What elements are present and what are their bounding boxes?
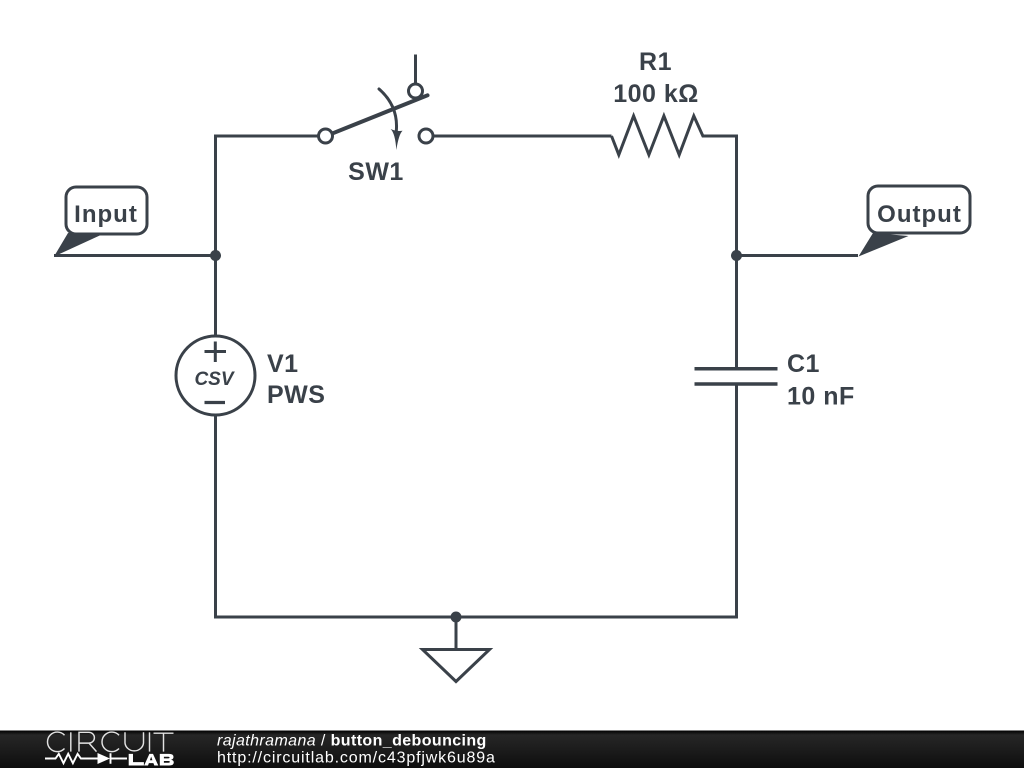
node flag Input bubble [66, 187, 147, 234]
wire input stub (Input flag to node) [54, 254, 217, 257]
CircuitLab logo word CIRCUIT (drawn letters) [48, 732, 174, 752]
wire top-left horizontal (node Input to SW1) [216, 135, 319, 138]
node junction dot: Input node [210, 250, 221, 261]
svg-text:C1: C1 [787, 350, 820, 378]
wire output stub (node to Output flag) [737, 254, 859, 257]
CircuitLab logo word LAB [129, 754, 174, 766]
node junction dot: Output node [731, 250, 742, 261]
node flag Input tail [54, 233, 103, 257]
svg-text:100 kΩ: 100 kΩ [613, 80, 699, 108]
capacitor C1 top plate [695, 367, 778, 371]
wire SW1 right terminal to R1 [433, 135, 612, 138]
node flag Output bubble [868, 186, 970, 233]
wire right vertical upper (R1 to C1 top plate) [735, 135, 738, 368]
svg-text:http://circuitlab.com/c43pfjwk: http://circuitlab.com/c43pfjwk6u89a [217, 750, 496, 767]
switch SW1 top terminal [409, 84, 423, 98]
ground symbol stub [455, 617, 458, 649]
ground symbol triangle [423, 650, 490, 682]
svg-text:R1: R1 [639, 48, 672, 76]
svg-text:Output: Output [877, 201, 962, 228]
node flag Output tail [859, 233, 909, 257]
svg-text:V1: V1 [267, 350, 299, 378]
switch SW1 actuation arrow [379, 89, 397, 131]
svg-text:rajathramana / button_debounci: rajathramana / button_debouncing [217, 733, 487, 750]
wire SW1 top stub [414, 55, 417, 85]
svg-text:10 nF: 10 nF [787, 383, 855, 411]
V1 minus sign [205, 401, 226, 404]
switch SW1 left terminal [319, 129, 333, 143]
switch SW1 lever [332, 95, 428, 134]
node junction dot: ground rail [451, 612, 462, 623]
resistor R1 [612, 116, 737, 155]
svg-text:CSV: CSV [194, 369, 234, 390]
wire bottom rail (ground net) [214, 616, 738, 619]
wire left vertical upper (Input node up to top wire) [214, 135, 217, 337]
CircuitLab logo resistor-diode squiggle [45, 753, 127, 763]
capacitor C1 bottom plate [695, 382, 778, 386]
voltage source V1 body [176, 336, 255, 415]
wire right vertical lower (C1 bottom plate to bottom rail) [735, 386, 738, 619]
svg-text:SW1: SW1 [348, 158, 404, 186]
svg-text:PWS: PWS [267, 381, 325, 409]
wire left vertical lower (V1 to bottom rail) [214, 415, 217, 618]
svg-text:Input: Input [74, 201, 138, 228]
V1 plus sign [205, 342, 227, 363]
switch SW1 right terminal [419, 129, 433, 143]
